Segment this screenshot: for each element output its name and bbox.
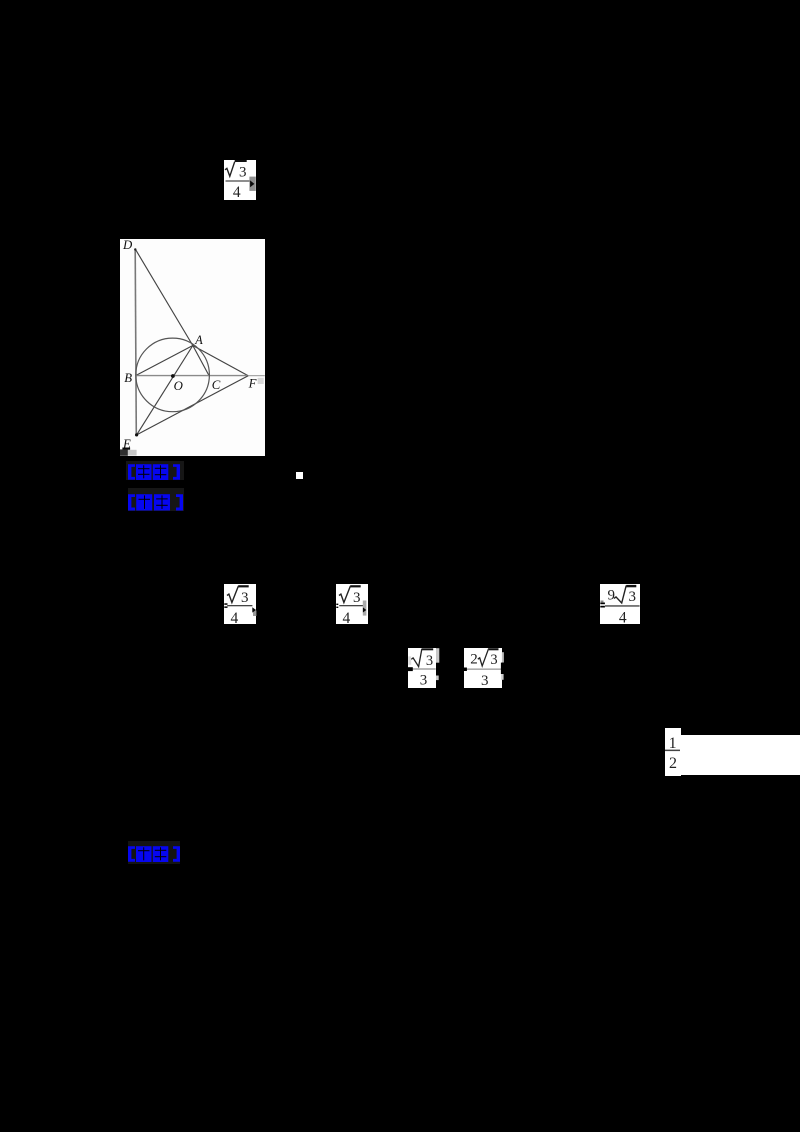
formula image: = sqrt(3)/4 (row2 col1) xyxy=(224,584,256,624)
svg-text:D: D xyxy=(122,239,133,252)
svg-text:3: 3 xyxy=(239,164,247,180)
svg-text:3: 3 xyxy=(481,673,489,688)
formula image: = 9sqrt(3)/4 (row2 col3) xyxy=(600,584,640,624)
wire B to F horizontal xyxy=(136,375,249,377)
svg-text:A: A xyxy=(194,333,203,347)
wire B to A xyxy=(136,346,193,376)
svg-text:4: 4 xyxy=(233,184,241,200)
gray strips right of sqrt(3)/3 xyxy=(436,648,440,681)
svg-text:3: 3 xyxy=(426,653,433,669)
svg-text:2: 2 xyxy=(669,755,677,772)
dark halo label 2 xyxy=(128,488,184,511)
svg-text:3: 3 xyxy=(420,672,428,688)
wire E to A xyxy=(137,346,193,435)
wire DE vertical xyxy=(135,249,136,436)
svg-text:C: C xyxy=(212,378,221,392)
circle O xyxy=(136,338,210,412)
svg-text:F: F xyxy=(248,376,257,390)
node E dot xyxy=(135,433,138,436)
dark halo label 1 xyxy=(126,461,184,480)
white bar right of 1/2 xyxy=(680,735,800,775)
wire E to F xyxy=(137,376,249,435)
svg-text:1: 1 xyxy=(668,735,676,752)
formula image: fraction sqrt(3)/4 (top) xyxy=(224,160,256,200)
svg-text:2: 2 xyxy=(470,651,478,667)
formula image: 2sqrt(3)/3 (row3 col2) xyxy=(464,648,504,688)
node D dot xyxy=(134,248,136,250)
formula image: sqrt(3)/4 (row2 col2) xyxy=(336,584,368,624)
white dot xyxy=(296,472,303,479)
wire D to A xyxy=(135,249,193,345)
wire F to box edge xyxy=(248,375,265,377)
formula image: 1/2 fraction xyxy=(665,728,681,776)
formula image: sqrt(3)/3 (row3 col1) xyxy=(408,648,436,688)
svg-text:9: 9 xyxy=(607,588,615,604)
node O center dot xyxy=(171,374,175,378)
comma after top fraction xyxy=(249,176,257,192)
blue label [fenxi] xyxy=(128,493,183,512)
svg-text:B: B xyxy=(124,371,132,385)
svg-text:4: 4 xyxy=(231,610,239,624)
svg-text:3: 3 xyxy=(353,590,361,606)
svg-text:4: 4 xyxy=(619,610,627,624)
dark halo label 3 xyxy=(128,841,180,864)
svg-text:O: O xyxy=(174,379,183,393)
blue label [xiangjie] xyxy=(128,845,180,863)
blue label [da'an] xyxy=(128,463,180,481)
svg-text:3: 3 xyxy=(629,589,637,605)
wire A to F xyxy=(193,346,248,376)
dark corner blocks bottom-left xyxy=(120,449,128,455)
svg-text:3: 3 xyxy=(490,652,497,668)
svg-text:4: 4 xyxy=(343,610,351,624)
wire A to C xyxy=(193,346,210,377)
geometry figure white box xyxy=(120,239,265,456)
comma after row2 col1 xyxy=(252,606,258,617)
black bar under E xyxy=(122,448,130,450)
gray patch right of F xyxy=(258,378,264,384)
svg-text:3: 3 xyxy=(241,590,249,606)
